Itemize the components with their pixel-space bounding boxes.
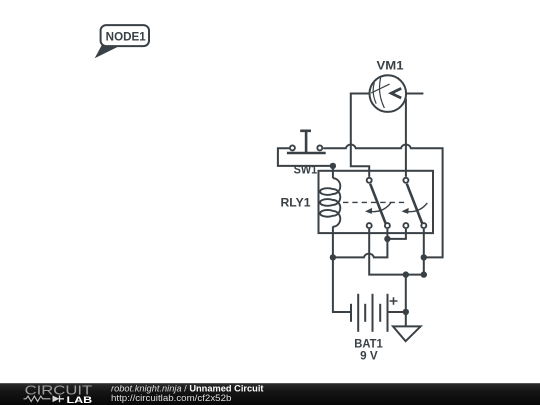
switch SW1 plunger (300, 131, 311, 152)
relay RLY1 terminal CT2 (403, 178, 408, 183)
switch SW1 pushbutton bar (287, 152, 326, 155)
junction dot NO2 bottom node (421, 271, 427, 277)
junction dot right rail node (421, 254, 427, 260)
junction dot NO1 node (384, 236, 390, 242)
svg-text:RLY1: RLY1 (281, 198, 312, 210)
relay RLY1 coil (320, 178, 340, 227)
wire battery right lead (388, 311, 406, 313)
svg-text:SW1: SW1 (294, 165, 318, 177)
wire VM1 left lead down to relay CT1 (351, 94, 370, 177)
footer bar (0, 383, 540, 405)
wire NC1 down and across to NO2 branch (369, 229, 424, 275)
voltmeter VM1 scale arcs (373, 78, 384, 108)
svg-text:VM1: VM1 (377, 61, 405, 73)
battery BAT1 plus sign (390, 297, 398, 305)
node label NODE1 (95, 25, 149, 58)
voltmeter VM1 body (370, 75, 407, 112)
relay RLY1 terminal NO2 (421, 223, 426, 228)
relay RLY1 actuation dashed link (343, 201, 406, 203)
wire NO1 stub (386, 229, 388, 239)
wire coil top stub (332, 166, 334, 178)
junction dot battery positive node (403, 271, 409, 277)
relay RLY1 pole 1 arrow (365, 203, 391, 214)
svg-text:http://circuitlab.com/cf2x52b: http://circuitlab.com/cf2x52b (111, 393, 231, 403)
voltmeter VM1 needle (371, 84, 389, 93)
wire SW1 left terminal to coil-top node (278, 148, 333, 166)
wire VM1 bottom down to relay CT2 (405, 98, 407, 176)
wire coil-bottom node across (hop) up to NO1 node and dogleg to NC2 (333, 229, 406, 257)
svg-text:BAT1: BAT1 (354, 338, 383, 350)
wire NO2 down to bottom net (423, 229, 425, 275)
svg-text:9 V: 9 V (360, 351, 378, 363)
relay RLY1 terminal NO1 (385, 223, 390, 228)
battery BAT1 plates (351, 294, 388, 332)
junction dot battery ground node (403, 309, 409, 315)
relay RLY1 pole 2 arrow (402, 203, 428, 214)
relay RLY1 terminal NC1 (367, 223, 372, 228)
wire SW1 right terminal across (with hops) to right rail down to NO2 node (323, 145, 442, 258)
svg-text:NODE1: NODE1 (106, 32, 147, 44)
relay RLY1 pole 2 blade (407, 184, 422, 224)
relay RLY1 terminal NC2 (403, 223, 408, 228)
junction dot coil bottom node (330, 254, 336, 260)
wire VM1 right stub (406, 93, 423, 95)
wire coil bottom down to battery negative (333, 226, 350, 312)
ground symbol (393, 326, 421, 341)
svg-text:LAB: LAB (67, 395, 93, 405)
relay RLY1 terminal CT1 (367, 178, 372, 183)
relay RLY1 body (319, 171, 434, 233)
voltmeter VM1 V glyph (391, 88, 401, 98)
footer logo resistor-diode squiggle (24, 395, 65, 402)
wire battery positive rail and ground stem (405, 275, 407, 327)
junction dot coil top node (330, 163, 336, 169)
switch SW1 left terminal (290, 145, 295, 150)
relay RLY1 pole 1 blade (370, 184, 385, 224)
switch SW1 right terminal (317, 145, 322, 150)
